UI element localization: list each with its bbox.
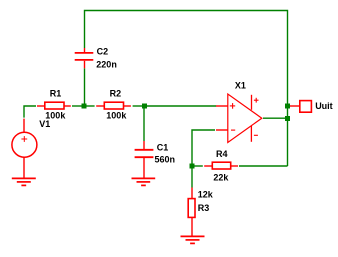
wire R1 right to node A bbox=[72, 105, 84, 107]
junction Uuit tap on right rail bbox=[285, 104, 290, 109]
svg-text:Uuit: Uuit bbox=[315, 101, 333, 111]
junction feedback node (R4/R3/inverting) bbox=[190, 164, 195, 169]
op-amp X1 bbox=[216, 94, 262, 143]
wire R2 right to node B bbox=[133, 105, 145, 107]
wire feedback node to R4 left bbox=[192, 165, 203, 167]
svg-text:12k: 12k bbox=[198, 189, 214, 199]
label Uuit bbox=[315, 101, 333, 111]
label R2 bbox=[110, 88, 122, 98]
value 220n bbox=[96, 60, 117, 70]
value 100k (R2) bbox=[106, 111, 127, 121]
svg-text:V1: V1 bbox=[39, 119, 50, 129]
svg-text:R3: R3 bbox=[198, 203, 210, 213]
svg-text:R1: R1 bbox=[50, 88, 62, 98]
svg-text:22k: 22k bbox=[213, 173, 229, 183]
resistor R2 bbox=[96, 102, 131, 109]
label X1 bbox=[235, 81, 246, 91]
wire feedback node down to R3 bbox=[191, 166, 193, 188]
svg-text:R2: R2 bbox=[110, 88, 122, 98]
resistor R4 bbox=[204, 162, 238, 169]
value 560n bbox=[155, 155, 176, 165]
wire op-amp output to right rail bbox=[263, 117, 288, 119]
resistor R1 bbox=[37, 102, 71, 109]
label C2 bbox=[97, 47, 109, 57]
svg-text:560n: 560n bbox=[155, 155, 176, 165]
ground below C1 bbox=[132, 178, 156, 185]
value 12k bbox=[198, 189, 214, 199]
svg-text:C2: C2 bbox=[97, 47, 109, 57]
wire node B to op-amp non-inverting input bbox=[145, 105, 217, 107]
ground below V1 bbox=[12, 178, 36, 185]
wire top feedback loop (C2 branch up, across top, down right rail) bbox=[85, 11, 288, 167]
wire feedback node up and to inverting input bbox=[192, 130, 215, 166]
value 100k (R1) bbox=[45, 111, 66, 121]
svg-text:X1: X1 bbox=[235, 81, 246, 91]
value 22k bbox=[213, 173, 229, 183]
label R4 bbox=[216, 149, 228, 159]
wire V1 top to R1 left bbox=[24, 106, 36, 118]
wire node A to R2 left bbox=[84, 105, 95, 107]
wire from right rail to R4 right pin bbox=[239, 165, 288, 167]
junction node A (R1/R2/C2) bbox=[82, 104, 87, 109]
wire C2 bottom to main node bbox=[84, 68, 86, 106]
output port Uuit pin bbox=[290, 101, 311, 113]
ground below R3 bbox=[181, 236, 205, 243]
voltage source V1 bbox=[12, 119, 37, 178]
junction op-amp output on right rail bbox=[285, 116, 290, 121]
svg-text:220n: 220n bbox=[96, 60, 117, 70]
wire node B down to C1 bbox=[143, 106, 145, 141]
capacitor C2 bbox=[75, 48, 94, 68]
label V1 bbox=[39, 119, 50, 129]
capacitor C1 bbox=[135, 141, 154, 178]
label R3 bbox=[198, 203, 210, 213]
label R1 bbox=[50, 88, 62, 98]
junction node B (R2/C1/op-amp +) bbox=[142, 104, 147, 109]
resistor R3 bbox=[188, 188, 195, 237]
svg-text:C1: C1 bbox=[157, 143, 169, 153]
svg-text:R4: R4 bbox=[216, 149, 228, 159]
label C1 bbox=[157, 143, 169, 153]
svg-text:100k: 100k bbox=[106, 111, 127, 121]
